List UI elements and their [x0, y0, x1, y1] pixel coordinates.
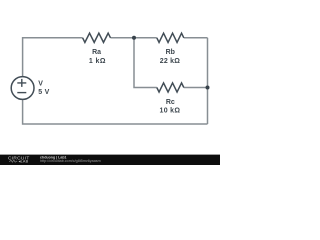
svg-text:◂LAB: ◂LAB	[19, 160, 29, 164]
voltage source V1 circle	[11, 77, 34, 100]
svg-text:Rb: Rb	[166, 49, 175, 56]
wire bottom rail	[23, 99, 208, 124]
svg-text:10 kΩ: 10 kΩ	[160, 108, 181, 115]
voltage source minus sign	[17, 92, 26, 94]
CircuitLab logo zigzag	[9, 160, 17, 163]
svg-text:22 kΩ: 22 kΩ	[160, 58, 180, 65]
svg-text:Rc: Rc	[166, 99, 175, 106]
wire top-left: source to Ra	[23, 38, 83, 77]
wire node A to Rb	[134, 37, 157, 39]
voltage source plus sign	[17, 79, 26, 87]
wire Ra to node A	[111, 37, 135, 39]
svg-text:5 V: 5 V	[38, 89, 49, 96]
svg-text:Ra: Ra	[92, 49, 101, 56]
wire Rc to right rail	[184, 87, 208, 89]
wire Rb to right rail	[184, 37, 208, 39]
svg-text:http://circuitlab.com/c/g8t5mv: http://circuitlab.com/c/g8t5mv6yaasm	[40, 159, 101, 163]
resistor Ra	[83, 33, 111, 42]
wire node A down to Rc branch	[134, 38, 157, 88]
resistor Rb	[157, 33, 184, 42]
node B junction dot	[206, 86, 210, 90]
svg-text:1 kΩ: 1 kΩ	[89, 58, 106, 65]
footer bar	[0, 155, 220, 165]
svg-text:V: V	[38, 80, 43, 87]
node A junction dot	[132, 36, 136, 40]
wire right rail	[207, 38, 209, 124]
resistor Rc	[157, 83, 184, 92]
